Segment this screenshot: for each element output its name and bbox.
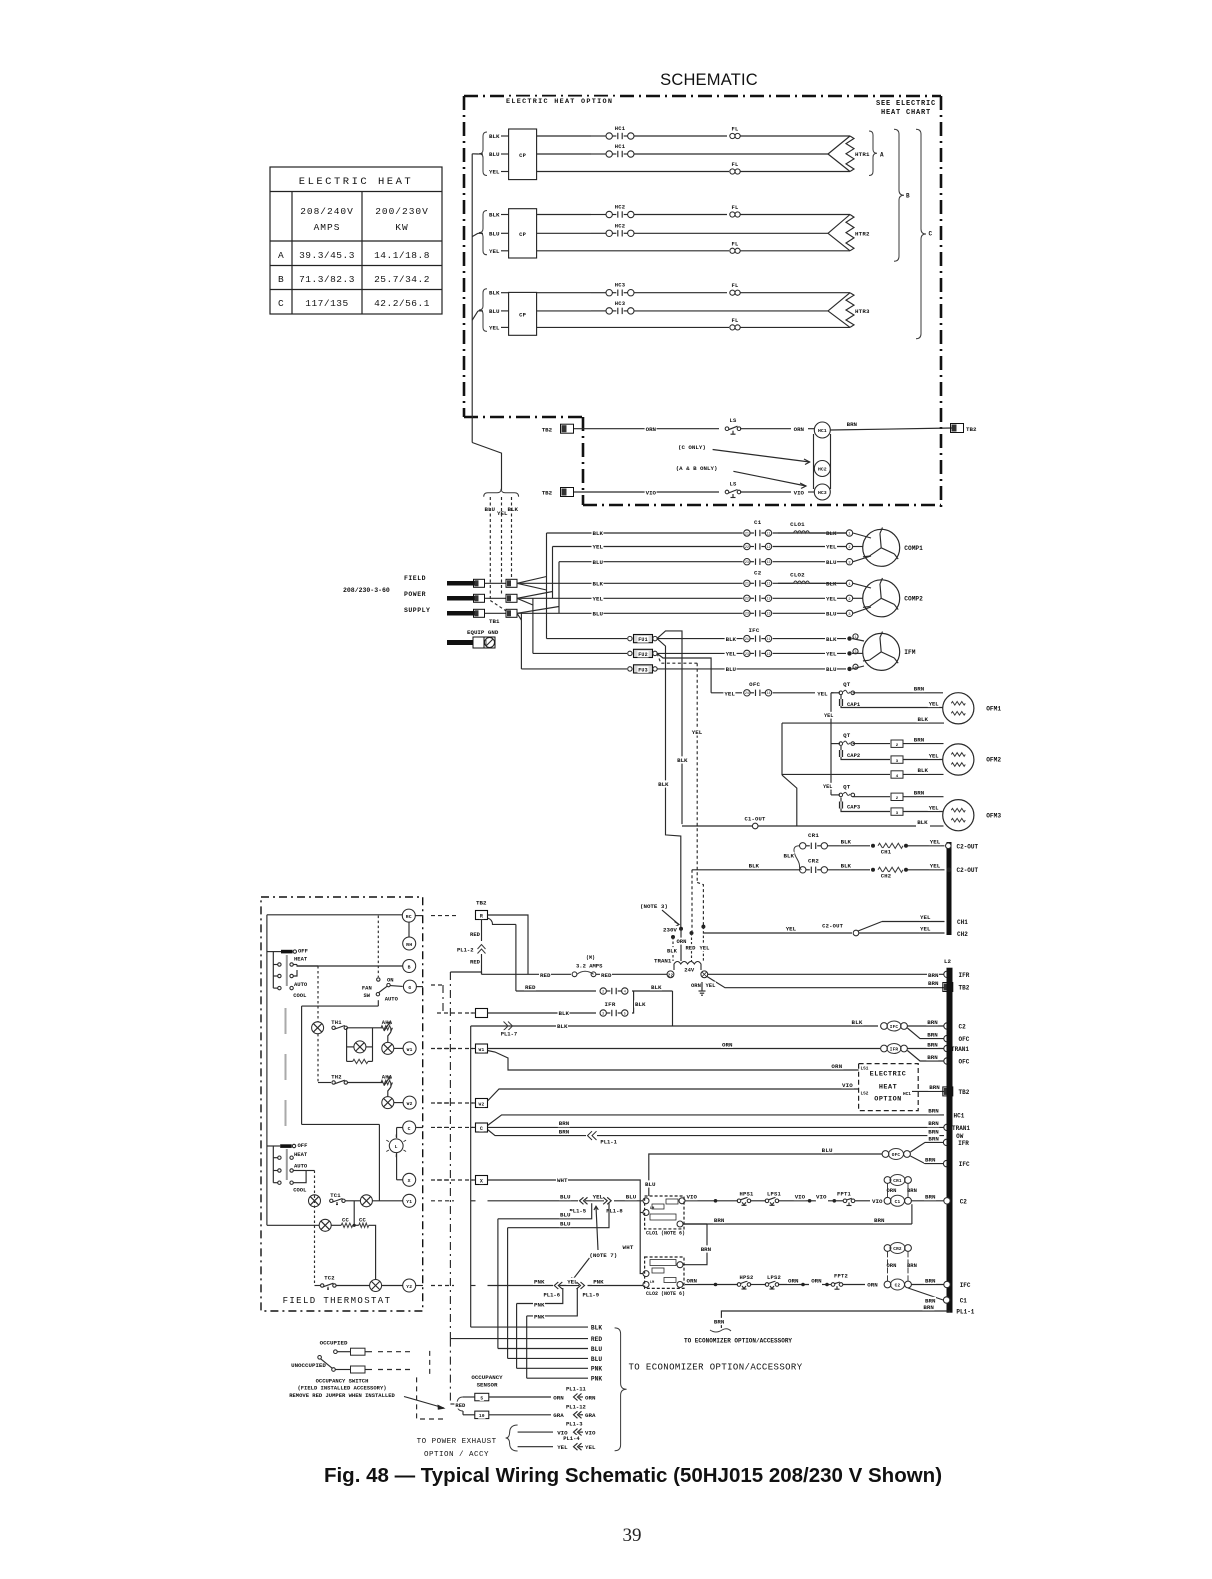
svg-text:13: 13 bbox=[766, 613, 770, 617]
svg-text:R: R bbox=[480, 914, 483, 920]
svg-text:TRAN1: TRAN1 bbox=[952, 1125, 970, 1132]
svg-text:L2: L2 bbox=[944, 958, 951, 965]
svg-text:RED: RED bbox=[591, 1336, 602, 1343]
svg-text:VIO: VIO bbox=[842, 1082, 853, 1089]
svg-text:GRA: GRA bbox=[585, 1412, 596, 1419]
svg-text:QT: QT bbox=[843, 783, 851, 790]
economizer wire bundle bbox=[471, 1326, 588, 1328]
svg-text:TB2: TB2 bbox=[476, 900, 487, 907]
wire BLK row CR1 to CH1 bbox=[828, 845, 871, 847]
svg-text:YEL: YEL bbox=[593, 1194, 604, 1201]
svg-text:C2: C2 bbox=[754, 569, 762, 576]
svg-text:FL: FL bbox=[731, 204, 739, 211]
svg-text:CH1: CH1 bbox=[881, 849, 892, 856]
svg-text:21: 21 bbox=[745, 532, 749, 536]
svg-text:BLK: BLK bbox=[489, 290, 500, 297]
svg-text:ORN: ORN bbox=[722, 1041, 733, 1048]
wire BRN diagonal to bus C1 bbox=[908, 1288, 943, 1300]
svg-text:PNK: PNK bbox=[593, 1278, 604, 1285]
svg-text:PL1-11: PL1-11 bbox=[566, 1386, 587, 1393]
svg-text:C: C bbox=[480, 1126, 483, 1132]
terminal W1 (thermostat) bbox=[403, 1042, 416, 1055]
svg-text:ORN: ORN bbox=[788, 1277, 799, 1284]
terminal TB2 W1 bbox=[541, 426, 553, 433]
lamp L with rays bbox=[397, 1127, 403, 1129]
svg-text:BLU: BLU bbox=[826, 559, 837, 566]
svg-text:BLU: BLU bbox=[645, 1181, 656, 1188]
svg-text:CH2: CH2 bbox=[957, 931, 968, 938]
fuse FL row3 (HTR1) bbox=[730, 169, 735, 174]
svg-text:YEL: YEL bbox=[585, 1444, 596, 1451]
terminal W2 and VIO row to LS2 bbox=[476, 1099, 488, 1108]
field supply conductor L1 bbox=[447, 581, 476, 586]
svg-text:BLU: BLU bbox=[826, 666, 837, 673]
svg-text:BRN: BRN bbox=[928, 972, 939, 979]
field thermostat dash-dot enclosure bbox=[261, 897, 423, 1311]
svg-text:L: L bbox=[395, 1144, 398, 1150]
field boundary dash-dot vertical (RED jumper) bbox=[449, 972, 451, 1339]
G dashed to terminal 8 bbox=[431, 984, 443, 986]
wire BLU row Y1 with plugs PL1-5/PL1-8 bbox=[488, 1200, 579, 1202]
svg-text:BRN: BRN bbox=[714, 1319, 725, 1326]
terminal X and WHT row bbox=[476, 1176, 488, 1185]
heater element HTR2 bbox=[828, 215, 850, 234]
svg-text:OCCUPANCY SWITCH: OCCUPANCY SWITCH bbox=[316, 1377, 369, 1384]
motor COMP1 bbox=[853, 533, 871, 538]
wire PNK row 2 (economizer) bbox=[517, 1288, 563, 1304]
svg-text:LS2: LS2 bbox=[861, 1092, 869, 1097]
svg-text:YEL: YEL bbox=[557, 1444, 568, 1451]
svg-text:SW: SW bbox=[363, 992, 370, 999]
terminal Y2 (thermostat) bbox=[403, 1279, 416, 1292]
svg-text:BLK: BLK bbox=[559, 1010, 570, 1017]
svg-text:TO POWER EXHAUST: TO POWER EXHAUST bbox=[417, 1438, 497, 1446]
svg-text:(NOTE 7): (NOTE 7) bbox=[589, 1252, 617, 1259]
relay coil CR2 bbox=[884, 1245, 891, 1252]
svg-text:ORN: ORN bbox=[687, 1277, 698, 1284]
svg-text:CLO1 (NOTE 6): CLO1 (NOTE 6) bbox=[646, 1231, 685, 1237]
svg-text:TB2: TB2 bbox=[959, 985, 970, 992]
terminal C1-OUT bbox=[752, 823, 758, 829]
terminal C (thermostat) bbox=[403, 1121, 416, 1134]
svg-text:OFC: OFC bbox=[892, 1153, 901, 1158]
svg-text:13: 13 bbox=[766, 653, 770, 657]
svg-text:FIELD THERMOSTAT: FIELD THERMOSTAT bbox=[283, 1296, 392, 1306]
svg-text:BLK: BLK bbox=[677, 757, 688, 764]
svg-text:PL1-2: PL1-2 bbox=[457, 947, 474, 954]
svg-text:BLK: BLK bbox=[651, 984, 662, 991]
svg-text:ORN: ORN bbox=[867, 1282, 878, 1289]
plug PL1-7 bbox=[504, 1022, 513, 1031]
svg-text:CLO1: CLO1 bbox=[790, 521, 805, 528]
svg-text:YEL: YEL bbox=[692, 729, 703, 736]
plug PL1-2 on R drop bbox=[481, 920, 483, 942]
svg-text:HC1: HC1 bbox=[903, 1092, 911, 1097]
label FIELD POWER SUPPLY bbox=[403, 574, 427, 582]
svg-text:SCHEMATIC: SCHEMATIC bbox=[660, 71, 758, 89]
svg-text:HEAT: HEAT bbox=[879, 1084, 897, 1092]
compressor lockout CLO1 coil symbol bbox=[794, 531, 810, 533]
wire ORN row to electric heat option LS1 bbox=[488, 1051, 859, 1071]
wire YEL row to CH2 with C2-OUT terminal bbox=[703, 932, 852, 934]
svg-text:24V: 24V bbox=[684, 967, 695, 974]
svg-text:5: 5 bbox=[624, 1012, 626, 1016]
wire ORN row PL1-11 bbox=[489, 1396, 551, 1398]
svg-text:CR2: CR2 bbox=[893, 1247, 902, 1252]
wire BRN row PL1-1 (bottom of bus) bbox=[721, 1311, 949, 1328]
wire BLK row COMP2 with contact C2 bbox=[517, 582, 743, 584]
coil HC3 bbox=[814, 484, 830, 500]
wire BRN row 1224 from CLO1 bbox=[683, 1223, 912, 1225]
svg-text:ORN: ORN bbox=[585, 1394, 596, 1401]
svg-text:BRN: BRN bbox=[927, 1031, 938, 1038]
svg-text:ELECTRIC: ELECTRIC bbox=[870, 1071, 907, 1079]
svg-text:BLK: BLK bbox=[591, 1325, 602, 1332]
svg-text:YEL: YEL bbox=[826, 596, 837, 603]
svg-text:HC2: HC2 bbox=[818, 467, 827, 473]
svg-text:TO ECONOMIZER OPTION/ACCESSORY: TO ECONOMIZER OPTION/ACCESSORY bbox=[684, 1338, 792, 1345]
svg-text:OCCUPANCY: OCCUPANCY bbox=[471, 1374, 503, 1381]
stubs from vertical to terminals bbox=[471, 1048, 476, 1050]
svg-text:HC2: HC2 bbox=[615, 222, 626, 229]
motor COMP2 bbox=[853, 583, 871, 588]
svg-text:A: A bbox=[880, 152, 884, 159]
svg-text:FL: FL bbox=[731, 317, 739, 324]
svg-text:23: 23 bbox=[745, 613, 749, 617]
svg-text:FL: FL bbox=[731, 282, 739, 289]
brace and wire labels BLK BLU YEL (HTR1) bbox=[479, 132, 487, 176]
wire HC1 output to bus TB2 (row 1091.4) bbox=[912, 1090, 944, 1092]
terminal RH bbox=[403, 937, 416, 950]
svg-text:BRN: BRN bbox=[925, 1194, 936, 1201]
BLK bus vertical (OFM) bbox=[781, 723, 783, 775]
svg-text:C2-OUT: C2-OUT bbox=[957, 867, 979, 874]
svg-text:EQUIP GND: EQUIP GND bbox=[467, 629, 499, 636]
svg-text:TB2: TB2 bbox=[959, 1089, 970, 1096]
first stage heat circuit bbox=[297, 965, 318, 967]
svg-text:LS: LS bbox=[729, 417, 737, 424]
svg-text:A: A bbox=[278, 250, 284, 261]
wire rows HTR2 bbox=[537, 214, 591, 216]
contact HC1 row2 bbox=[612, 153, 616, 155]
svg-text:BRN: BRN bbox=[925, 1277, 936, 1284]
svg-text:200/230V: 200/230V bbox=[375, 206, 429, 217]
svg-text:YEL: YEL bbox=[929, 804, 940, 811]
svg-text:RED: RED bbox=[525, 984, 536, 991]
bus terminal IFR (row 974) bbox=[944, 971, 950, 977]
wire BRN to OFC (row 1061) bbox=[907, 1051, 944, 1062]
sub lamp branch bbox=[346, 1028, 348, 1062]
wire BLU row COMP2 bbox=[517, 612, 743, 614]
svg-text:TH1: TH1 bbox=[331, 1019, 342, 1026]
terminal G bbox=[403, 980, 416, 993]
occupancy sensor bbox=[470, 1373, 504, 1380]
svg-text:FIELD: FIELD bbox=[404, 575, 426, 582]
svg-text:FU3: FU3 bbox=[638, 667, 648, 673]
svg-text:CAP2: CAP2 bbox=[847, 752, 860, 759]
svg-text:YEL: YEL bbox=[726, 651, 737, 658]
contact IFR (row 1013) bbox=[606, 1012, 610, 1014]
svg-text:YEL: YEL bbox=[826, 651, 837, 658]
terminal C (transformer secondary) bbox=[701, 971, 708, 978]
svg-text:(A & B ONLY): (A & B ONLY) bbox=[676, 465, 718, 472]
svg-text:W2: W2 bbox=[407, 1101, 413, 1107]
svg-text:CH1: CH1 bbox=[957, 919, 968, 926]
svg-text:IFC: IFC bbox=[960, 1282, 971, 1289]
svg-text:LS: LS bbox=[729, 481, 737, 488]
svg-text:VIO: VIO bbox=[646, 490, 657, 497]
note 7 label with arrows bbox=[588, 1251, 618, 1258]
anticipator AHA (stage2) bbox=[381, 1073, 393, 1080]
svg-text:IFC: IFC bbox=[890, 1025, 899, 1030]
svg-text:COOL: COOL bbox=[293, 1187, 307, 1194]
svg-text:PL1-3: PL1-3 bbox=[566, 1421, 583, 1428]
svg-text:BLK: BLK bbox=[489, 212, 500, 219]
fan switch bbox=[361, 984, 372, 991]
svg-text:IFR: IFR bbox=[958, 1140, 969, 1147]
svg-text:1: 1 bbox=[848, 583, 850, 587]
svg-text:TRAN1: TRAN1 bbox=[951, 1046, 969, 1053]
svg-text:GRA: GRA bbox=[553, 1412, 564, 1419]
wire BLK row COMP1 with contact C1 bbox=[547, 532, 743, 534]
svg-text:39: 39 bbox=[623, 1525, 642, 1546]
svg-text:BLK: BLK bbox=[726, 636, 737, 643]
svg-text:HC3: HC3 bbox=[615, 300, 626, 307]
brace TO POWER EXHAUST bbox=[506, 1425, 518, 1451]
svg-text:(M): (M) bbox=[586, 955, 595, 961]
wire BLK row 1026 to contact IFC and bus C2 bbox=[471, 1025, 878, 1027]
wire VIO row 1200.8 HPS1 LPS1 FPT1 bbox=[685, 1200, 738, 1202]
svg-text:C2: C2 bbox=[895, 1284, 901, 1289]
svg-text:BRN: BRN bbox=[914, 789, 925, 796]
svg-text:FAN: FAN bbox=[362, 985, 372, 992]
wire BLK row OFM1 bbox=[782, 722, 944, 724]
svg-text:PL1-1: PL1-1 bbox=[600, 1139, 617, 1146]
wire BLU row IFM bbox=[657, 668, 846, 670]
svg-text:BRN: BRN bbox=[927, 1041, 938, 1048]
svg-text:OCCUPIED: OCCUPIED bbox=[320, 1339, 348, 1346]
thermostat inner frame bbox=[267, 914, 402, 916]
svg-text:CLO2 (NOTE 6): CLO2 (NOTE 6) bbox=[646, 1291, 685, 1297]
svg-text:RH: RH bbox=[406, 942, 412, 948]
svg-text:HC1: HC1 bbox=[818, 428, 827, 434]
svg-text:C: C bbox=[408, 1126, 411, 1132]
wire VIO row PL1-3 bbox=[518, 1431, 553, 1433]
svg-text:YEL: YEL bbox=[929, 701, 940, 708]
svg-text:BLU: BLU bbox=[593, 559, 604, 566]
contact CR1 bbox=[807, 831, 820, 838]
wire BRN row W1 to TB2 bbox=[831, 428, 953, 430]
svg-text:11: 11 bbox=[766, 532, 770, 536]
bus bar CH (C2-OUT) bbox=[947, 842, 952, 935]
arrow from note to red jumper bbox=[404, 1397, 444, 1409]
svg-text:71.3/82.3: 71.3/82.3 bbox=[299, 274, 355, 285]
terminal W1 and ORN row 1048.5 bbox=[476, 1044, 488, 1053]
svg-text:BLU: BLU bbox=[560, 1194, 571, 1201]
svg-text:TRAN1: TRAN1 bbox=[654, 958, 672, 965]
svg-text:21: 21 bbox=[745, 583, 749, 587]
svg-text:BLK: BLK bbox=[918, 716, 929, 723]
svg-text:11: 11 bbox=[766, 583, 770, 587]
lamp W1 bbox=[390, 1028, 392, 1032]
svg-text:VIO: VIO bbox=[585, 1430, 596, 1437]
svg-text:BLU: BLU bbox=[489, 151, 500, 158]
svg-text:WHT: WHT bbox=[557, 1177, 568, 1184]
svg-text:BLK: BLK bbox=[841, 839, 852, 846]
svg-text:CP: CP bbox=[519, 152, 527, 159]
svg-text:3.2 AMPS: 3.2 AMPS bbox=[576, 963, 603, 970]
svg-text:CAP3: CAP3 bbox=[847, 804, 861, 811]
interconnect verticals bbox=[353, 1201, 355, 1226]
wire BRN row OFM2 with plug bbox=[853, 743, 890, 745]
wires TB1 fanout to compressor rows bbox=[517, 577, 547, 584]
contact HC3 row2 bbox=[612, 310, 616, 312]
svg-text:HC2: HC2 bbox=[615, 204, 626, 211]
svg-text:C2: C2 bbox=[959, 1024, 967, 1031]
svg-text:3: 3 bbox=[896, 812, 899, 816]
electric heat option dashed enclosure bbox=[464, 96, 941, 507]
svg-text:RED: RED bbox=[470, 959, 481, 966]
svg-text:AHA: AHA bbox=[382, 1074, 393, 1081]
svg-text:BRN: BRN bbox=[928, 1108, 939, 1115]
capacitor CAP2 bbox=[840, 746, 842, 750]
wire stub WHT to CLO1 pin 8 bbox=[640, 1212, 643, 1214]
svg-text:AUTO: AUTO bbox=[294, 1163, 308, 1170]
fuse FL row1 (HTR2) bbox=[730, 212, 735, 217]
svg-text:BLU: BLU bbox=[822, 1147, 833, 1154]
wire rows HTR3 bbox=[537, 292, 591, 294]
contact HC3 row1 bbox=[612, 292, 616, 294]
svg-text:PL1-9: PL1-9 bbox=[583, 1292, 600, 1299]
heater element HTR3 bbox=[828, 293, 850, 311]
lamp W2 bbox=[390, 1083, 392, 1088]
svg-text:22: 22 bbox=[745, 598, 749, 602]
svg-text:3: 3 bbox=[848, 561, 850, 565]
motor OFM3 bbox=[943, 800, 974, 831]
field wiring dashes (occupancy) bbox=[429, 1351, 431, 1376]
pressure switch HPS1 bbox=[737, 1199, 741, 1203]
heater CH2 bbox=[878, 867, 903, 872]
svg-text:CR2: CR2 bbox=[808, 858, 819, 865]
terminal TB2 W2 bbox=[541, 489, 553, 496]
svg-text:BLK: BLK bbox=[658, 781, 669, 788]
terminal Y1 (thermostat) bbox=[403, 1194, 416, 1207]
contact HC2 row2 bbox=[612, 232, 616, 234]
wire BLK row OFM3 / C1-OUT bbox=[682, 825, 916, 827]
svg-text:PNK: PNK bbox=[534, 1302, 545, 1309]
svg-text:(C ONLY): (C ONLY) bbox=[678, 444, 706, 451]
svg-text:OFM2: OFM2 bbox=[986, 757, 1001, 764]
system switch 1 bbox=[281, 950, 293, 954]
svg-text:4: 4 bbox=[896, 775, 899, 779]
svg-text:HTR1: HTR1 bbox=[855, 151, 870, 158]
wire BLK row IFM with contact IFC bbox=[657, 638, 743, 640]
svg-text:BLK: BLK bbox=[841, 863, 852, 870]
coil HC2 bbox=[814, 461, 830, 477]
svg-text:HTR2: HTR2 bbox=[855, 230, 870, 237]
QT feed vertical bbox=[830, 693, 832, 792]
svg-text:ORN: ORN bbox=[646, 426, 657, 433]
svg-text:HPS2: HPS2 bbox=[739, 1274, 753, 1281]
svg-text:YEL: YEL bbox=[489, 324, 500, 331]
sensor terminal 5 bbox=[475, 1393, 489, 1401]
svg-text:CH2: CH2 bbox=[881, 873, 892, 880]
terminal 8 and BLK row 1013 bbox=[476, 1009, 488, 1018]
svg-text:TB1: TB1 bbox=[489, 618, 500, 625]
svg-text:BLK: BLK bbox=[917, 819, 928, 826]
svg-text:PNK: PNK bbox=[591, 1366, 602, 1373]
svg-text:CR1: CR1 bbox=[808, 832, 819, 839]
freeze protection FPT2 bbox=[822, 1284, 831, 1286]
svg-text:HC3: HC3 bbox=[818, 490, 827, 496]
svg-text:HEAT: HEAT bbox=[294, 956, 308, 963]
wire BRN to OFC (row 1039) bbox=[907, 1028, 944, 1039]
svg-text:BRN: BRN bbox=[927, 1019, 938, 1026]
contact QT (OFM2) bbox=[839, 742, 843, 746]
svg-text:ORN: ORN bbox=[887, 1262, 897, 1269]
svg-text:PL1-4: PL1-4 bbox=[563, 1435, 580, 1442]
svg-text:C1: C1 bbox=[895, 1200, 901, 1205]
wire BLK row CR2 bbox=[692, 869, 800, 871]
svg-text:BLK: BLK bbox=[749, 863, 760, 870]
svg-text:C2-OUT: C2-OUT bbox=[957, 843, 979, 850]
svg-text:12: 12 bbox=[766, 546, 770, 550]
svg-text:TB2: TB2 bbox=[542, 427, 553, 434]
svg-text:21: 21 bbox=[745, 638, 749, 642]
svg-text:RED: RED bbox=[601, 972, 612, 979]
lockout module CLO2 bbox=[645, 1257, 684, 1288]
wire YEL row COMP1 bbox=[553, 546, 743, 548]
thermostat terminal dashes to column bbox=[431, 1048, 456, 1050]
svg-text:ORN: ORN bbox=[553, 1394, 564, 1401]
bus terminal TB2 (row 987) bbox=[943, 983, 953, 992]
FU fanout verticals to transformer bbox=[657, 639, 681, 929]
svg-text:117/135: 117/135 bbox=[305, 298, 348, 309]
svg-text:VIO: VIO bbox=[816, 1194, 827, 1201]
svg-text:BLK: BLK bbox=[826, 636, 837, 643]
svg-text:KW: KW bbox=[395, 222, 408, 233]
table ELECTRIC HEAT bbox=[270, 167, 442, 314]
svg-text:YEL: YEL bbox=[724, 690, 735, 697]
label ELECTRIC HEAT OPTION bbox=[505, 97, 616, 105]
svg-text:LPS1: LPS1 bbox=[767, 1191, 782, 1198]
svg-text:(FIELD INSTALLED ACCESSORY): (FIELD INSTALLED ACCESSORY) bbox=[297, 1385, 386, 1392]
wire YEL row IFM with contact IFC bbox=[657, 652, 743, 654]
vertical BLK wire to economizer bbox=[470, 1026, 472, 1327]
wire YEL row OFM feed with contact OFC bbox=[711, 692, 742, 694]
wires BLU YEL BLK down to TB1 bbox=[484, 505, 496, 512]
wire ORN row 1284.5 HPS2 LPS2 FPT2 bbox=[685, 1284, 738, 1286]
fuse FU3 bbox=[521, 668, 627, 670]
svg-text:OFM3: OFM3 bbox=[986, 812, 1001, 819]
svg-text:(NOTE 3): (NOTE 3) bbox=[640, 903, 668, 910]
svg-text:BRN: BRN bbox=[559, 1120, 570, 1127]
svg-text:YEL: YEL bbox=[823, 784, 832, 790]
wire VIO row W2 bbox=[574, 491, 719, 493]
svg-text:11: 11 bbox=[766, 638, 770, 642]
svg-text:OFC: OFC bbox=[959, 1059, 970, 1066]
svg-text:C1: C1 bbox=[754, 519, 762, 526]
limit switch LS (row W1) bbox=[725, 427, 729, 431]
svg-text:BLK: BLK bbox=[918, 767, 929, 774]
svg-text:Y1: Y1 bbox=[406, 1199, 412, 1205]
svg-text:CLO2: CLO2 bbox=[790, 571, 805, 578]
coil tie wires bbox=[813, 434, 815, 489]
equip ground lug bbox=[466, 628, 500, 635]
svg-text:1: 1 bbox=[848, 533, 850, 537]
contact IFR (row 1048.5) bbox=[881, 1045, 888, 1052]
svg-text:IFR: IFR bbox=[890, 1048, 899, 1053]
